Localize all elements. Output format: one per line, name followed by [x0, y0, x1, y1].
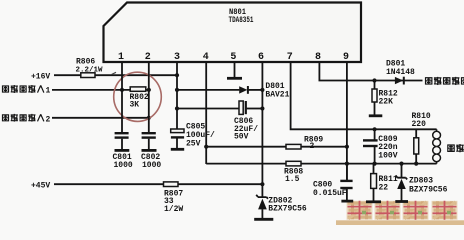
svg-text:1000: 1000 — [114, 161, 133, 170]
wire pin6 column — [261, 62, 263, 197]
node label 场激励输入2 — [2, 114, 51, 125]
svg-text:100V: 100V — [378, 151, 397, 160]
svg-text:22K: 22K — [379, 98, 394, 107]
resistor R811 22 — [371, 164, 398, 201]
svg-text:22: 22 — [379, 183, 389, 192]
wire pin4 column with corner to W2 — [205, 62, 207, 164]
capacitor C806 22uF/50V — [234, 101, 262, 141]
svg-text:+45V: +45V — [31, 181, 50, 190]
ground C802 — [142, 149, 157, 152]
wire pin8 to diode 1N4148 — [319, 62, 422, 81]
resistor R808 1.5 — [284, 161, 303, 184]
junction dot pin2/input2 — [147, 116, 151, 120]
ground pin5 — [227, 77, 242, 80]
junction dot pin3/wireA — [175, 88, 179, 92]
svg-text:50V: 50V — [234, 132, 249, 141]
inductor field deflection coil — [433, 129, 441, 163]
ground ZD803 — [395, 200, 408, 203]
resistor R807 33 1/2W — [164, 182, 184, 214]
svg-text:2: 2 — [46, 116, 51, 125]
wire field drive input 2 — [52, 117, 149, 119]
ground ZD802 — [254, 218, 273, 221]
svg-text:BZX79C56: BZX79C56 — [268, 205, 307, 214]
junction dot pin3/+16V — [175, 73, 179, 77]
wire pin7 column to W3 — [291, 62, 437, 129]
resistor R806 2.2/1W — [76, 58, 104, 78]
junction dot pin6/wireA — [260, 88, 264, 92]
svg-text:220: 220 — [412, 120, 427, 129]
svg-text:BAV21: BAV21 — [265, 91, 289, 100]
wire pin5 stub — [234, 62, 236, 78]
zener diode ZD803 BZX79C56 — [396, 164, 448, 201]
svg-text:BZX79C56: BZX79C56 — [409, 186, 448, 195]
capacitor C800 0.015uF — [313, 164, 353, 201]
svg-text:1000: 1000 — [142, 161, 161, 170]
svg-text:1: 1 — [46, 87, 51, 96]
junction dot W2/pin9 — [345, 162, 349, 166]
ground C800 — [341, 200, 353, 203]
watermark 电影资料 — [336, 201, 464, 225]
ground C801 — [115, 149, 130, 152]
svg-text:4: 4 — [203, 52, 209, 63]
resistor R810 220 — [412, 112, 431, 164]
wire W1 pin4 to pin9 — [206, 146, 347, 148]
junction dot pin8 wire/R812 — [372, 78, 376, 82]
svg-text:ZD803: ZD803 — [409, 177, 433, 186]
svg-text:0.015uF: 0.015uF — [313, 189, 347, 198]
wire pin3 column — [176, 62, 178, 130]
red highlight circle around R802 — [114, 72, 162, 121]
svg-text:1.5: 1.5 — [285, 175, 300, 184]
wire +16V rail — [54, 74, 177, 76]
diode D801 BAV21 — [239, 82, 289, 100]
svg-text:2: 2 — [145, 52, 151, 63]
op-amp IC N801 TDA8351 body — [104, 3, 362, 63]
wire +45V rail — [54, 183, 262, 185]
stray mark — [112, 72, 117, 74]
junction dot C809/W3 — [373, 127, 377, 131]
svg-text:2.2/1W: 2.2/1W — [76, 67, 104, 75]
junction dot ZD803/W2 — [399, 162, 403, 166]
junction dot pin4/W1 — [204, 145, 208, 149]
junction dot pin3/wireB — [175, 106, 179, 110]
capacitor C805 100uF/25V — [171, 123, 215, 149]
svg-text:1: 1 — [118, 52, 124, 63]
ground R812 — [369, 114, 383, 117]
svg-text:7: 7 — [287, 52, 293, 63]
capacitor C801 1000 — [113, 133, 133, 170]
zener diode ZD802 BZX79C56 — [256, 195, 307, 219]
junction dot pin1/input1 — [120, 88, 124, 92]
svg-text:2: 2 — [310, 142, 315, 151]
svg-text:9: 9 — [343, 52, 349, 63]
svg-text:3K: 3K — [130, 100, 140, 109]
svg-text:R806: R806 — [76, 58, 95, 67]
junction dot pin6/wireB — [260, 106, 264, 110]
resistor R802 3K — [122, 87, 149, 109]
wire field drive input 1 — [52, 89, 122, 91]
svg-text:1/2W: 1/2W — [164, 205, 183, 214]
node label 场激励输入1 — [2, 85, 51, 96]
svg-text:1N4148: 1N4148 — [386, 68, 415, 77]
wire pin3 to capacitor C806 — [177, 108, 239, 110]
node label 场逆程脉冲输出 — [425, 77, 464, 85]
svg-text:+16V: +16V — [31, 73, 50, 82]
wire pin1 column — [121, 62, 123, 132]
wire pin9 column — [346, 62, 348, 180]
svg-text:25V: 25V — [186, 139, 201, 148]
svg-text:3: 3 — [174, 52, 180, 63]
junction dot W1/pin9 — [345, 145, 349, 149]
diode D801 1N4148 — [386, 60, 415, 85]
junction dot pin2/R802 — [147, 88, 151, 92]
ground R811 — [366, 200, 381, 203]
wire pin2 column — [148, 62, 150, 132]
junction dot R810/W2 — [414, 162, 418, 166]
resistor R809 2 — [286, 136, 323, 151]
junction dot C809/W2 — [373, 162, 377, 166]
svg-text:8: 8 — [315, 52, 321, 63]
svg-text:5: 5 — [230, 52, 236, 63]
resistor R812 22K — [372, 81, 398, 115]
svg-text:TDA8351: TDA8351 — [229, 16, 254, 25]
wire W2 pin4 to coil bottom — [206, 163, 436, 165]
wire pin3 to diode D801 — [177, 89, 239, 91]
junction dot pin6/+45V — [260, 182, 264, 186]
node label 场偏转线圈 — [447, 144, 464, 152]
capacitor C809 220n/100V — [363, 129, 398, 163]
svg-text:6: 6 — [258, 52, 264, 63]
capacitor C802 1000 — [141, 133, 161, 170]
ground C805 — [171, 148, 184, 151]
